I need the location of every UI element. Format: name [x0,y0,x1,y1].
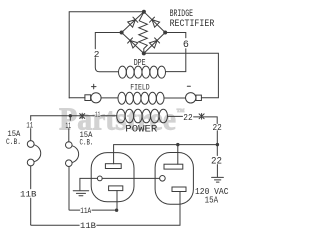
wire top-left rectangle feed [69,12,142,98]
node right vertex [163,31,167,35]
svg-text:11B: 11B [80,221,96,231]
wire 11 to POWER coil [101,115,117,117]
svg-text:2: 2 [94,49,100,60]
breaker col2 arc [72,146,79,163]
wire POWER run left [31,115,95,117]
wire right receptacle top stem [177,145,179,165]
wire FIELD to minus terminal [164,97,185,99]
breaker col2 top circle [66,142,73,149]
terminal plus circle [91,93,101,103]
terminal plus square [85,95,91,101]
wire 22 vertical mid [216,131,218,156]
wire pin bus [80,177,160,179]
wire col1 lower [30,166,32,225]
receptacle left outline [91,153,134,202]
ground right [212,177,224,182]
receptacle left top slot [105,164,121,169]
svg-text:C.B.: C.B. [6,138,21,147]
diode D1 top-left [128,20,136,28]
node top bus right [216,143,219,146]
svg-text:POWER: POWER [125,125,157,136]
wire receptacle top bus [114,145,218,164]
wire 22 vertical to ground [216,165,218,177]
wire 11B bottom run [31,192,180,226]
svg-text:22: 22 [183,113,192,123]
diode D3 bottom-left [130,41,138,49]
diode D4 bottom-right [149,40,157,48]
terminal minus square [196,95,201,100]
svg-text:22: 22 [211,157,222,168]
svg-text:DPE: DPE [134,57,146,68]
wire to left ground [79,178,81,190]
wire bridge minus to field minus terminal [144,53,219,97]
receptacle right bottom slot [172,187,186,192]
breaker col1 arc [34,145,41,162]
receptacle right pin circle [160,176,166,182]
resistor inside bridge [139,12,148,53]
node top vertex [142,10,146,14]
wire DPE to node 6 [166,49,186,72]
wire 22 to corner [194,117,218,124]
inductor DPE coil [118,66,126,78]
diode D4 cathode bar [155,38,160,43]
inductor POWER coil [117,109,125,123]
svg-text:11B: 11B [20,190,37,200]
diode D1 cathode bar [133,17,138,22]
ground left [73,191,89,196]
wire plus to FIELD [101,97,118,99]
diode D3 cathode bar [128,38,133,43]
wire node 2 lower [95,58,118,72]
label plus sign [92,84,97,89]
receptacle right top slot [164,164,183,169]
wire node 2 branch [95,33,121,49]
terminal minus circle [186,93,196,103]
watermark Partstree [59,101,185,137]
wire col2 lower [69,167,115,211]
svg-text:11: 11 [95,111,100,119]
svg-text:11: 11 [66,122,72,131]
diode D2 cathode bar [150,17,155,22]
wire node 6 upper [165,33,186,38]
connector X left [80,113,85,119]
svg-text:15A: 15A [205,195,219,206]
breaker col2 bottom circle [66,160,73,167]
node 11A junction [115,209,118,212]
connector X right [199,114,204,120]
node top bus mid [176,143,179,146]
receptacle left bottom slot [109,186,123,191]
receptacle left pin circle [97,176,102,181]
bridge rectifier diamond wires [122,12,166,54]
receptacle right outline [155,153,193,205]
diode D2 top-right [152,20,160,28]
wire plus lead [69,97,85,99]
wire POWER to 22 [168,115,183,117]
inductor FIELD coil [118,92,126,104]
svg-text:C.B.: C.B. [80,139,94,148]
svg-text:11: 11 [26,122,33,131]
label minus sign [187,85,190,87]
svg-text:11A: 11A [80,206,92,216]
breaker col1 bottom circle [27,159,34,166]
svg-text:22: 22 [213,123,222,133]
wire left receptacle bottom stem [116,191,118,210]
wire col1 drop [30,116,32,141]
svg-text:RECTIFIER: RECTIFIER [170,19,215,30]
node bottom vertex [142,51,146,55]
svg-text:6: 6 [183,40,189,51]
node left vertex [120,31,124,35]
svg-text:FIELD: FIELD [130,83,150,93]
breaker col1 top circle [27,141,34,148]
node col2 junction [69,114,72,117]
wire col2 drop [69,116,71,142]
